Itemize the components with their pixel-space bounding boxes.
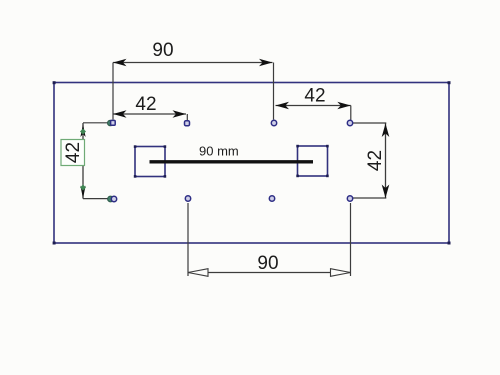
spacing line 90 mm bbox=[150, 160, 314, 163]
dimension 42 right vertical bbox=[353, 123, 389, 198]
svg-text:90: 90 bbox=[257, 253, 278, 274]
hole H4 (top-right) bbox=[347, 120, 352, 125]
dimension 42 top-left: dim line bbox=[113, 110, 187, 120]
dimension 90 top: left extension line bbox=[112, 63, 114, 120]
dimension 90 bottom bbox=[188, 203, 351, 276]
hole H6 (bottom) bbox=[185, 196, 190, 201]
dimension 42 top-right: dim line bbox=[276, 102, 351, 120]
svg-text:42: 42 bbox=[63, 142, 84, 163]
mounting square right bbox=[296, 145, 328, 177]
hole H8 (bottom-right) bbox=[347, 196, 352, 201]
hole H2 (top) bbox=[185, 121, 190, 126]
hole H3 (top) bbox=[271, 120, 276, 125]
mounting square left bbox=[134, 145, 166, 177]
hole H1 (top-left, with green point marker) bbox=[108, 120, 116, 126]
dimension 90 top: dim line bbox=[113, 59, 273, 67]
svg-text:42: 42 bbox=[135, 94, 156, 115]
hole H5 (bottom-left, with green point marker) bbox=[108, 196, 117, 202]
svg-text:42: 42 bbox=[365, 150, 386, 171]
dimension 42 left vertical (selected) bbox=[80, 123, 108, 199]
plate outline bbox=[53, 81, 451, 244]
hole H7 (bottom) bbox=[269, 196, 274, 201]
svg-text:90 mm: 90 mm bbox=[199, 144, 239, 159]
dimension 90 top: right extension line bbox=[273, 63, 275, 120]
svg-text:90: 90 bbox=[152, 40, 173, 61]
dimension 42 left vertical: green label box bbox=[61, 140, 85, 166]
svg-text:42: 42 bbox=[304, 86, 325, 107]
